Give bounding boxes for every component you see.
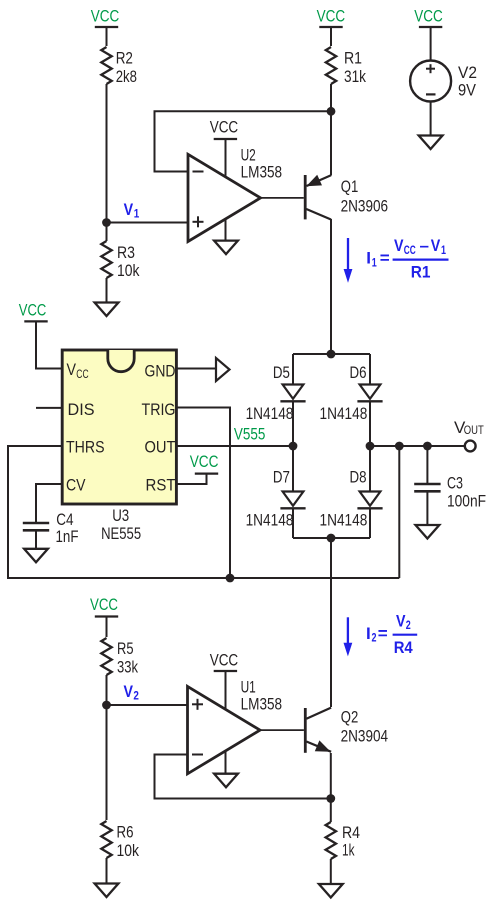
svg-text:CV: CV — [66, 476, 86, 495]
svg-text:1: 1 — [441, 243, 446, 257]
svg-text:1: 1 — [134, 206, 140, 220]
svg-text:=: = — [378, 624, 388, 643]
svg-text:V555: V555 — [234, 425, 266, 444]
svg-text:33k: 33k — [117, 658, 138, 677]
svg-text:R1: R1 — [411, 263, 431, 282]
svg-text:=: = — [380, 249, 390, 268]
svg-text:R4: R4 — [342, 823, 360, 842]
svg-text:100nF: 100nF — [447, 492, 486, 511]
svg-text:Q2: Q2 — [341, 708, 359, 727]
svg-text:2: 2 — [133, 688, 139, 702]
svg-text:2k8: 2k8 — [116, 67, 137, 86]
svg-text:CC: CC — [404, 243, 416, 257]
svg-text:10k: 10k — [117, 841, 140, 860]
svg-text:V: V — [396, 611, 406, 630]
svg-text:D6: D6 — [350, 363, 367, 382]
svg-text:R5: R5 — [117, 639, 134, 658]
svg-text:D8: D8 — [350, 468, 367, 487]
svg-text:R4: R4 — [394, 638, 413, 657]
svg-text:R1: R1 — [344, 49, 362, 68]
svg-text:C3: C3 — [447, 474, 463, 493]
svg-text:OUT: OUT — [145, 438, 176, 457]
svg-text:VCC: VCC — [317, 7, 346, 26]
svg-text:DIS: DIS — [68, 400, 95, 419]
svg-text:1N4148: 1N4148 — [320, 404, 368, 423]
svg-text:V: V — [124, 682, 134, 701]
svg-text:D7: D7 — [273, 468, 290, 487]
svg-text:GND: GND — [145, 362, 176, 381]
svg-text:VCC: VCC — [190, 452, 219, 471]
svg-text:31k: 31k — [344, 67, 366, 86]
svg-text:V2: V2 — [458, 63, 477, 82]
svg-text:VCC: VCC — [91, 7, 120, 26]
svg-text:2: 2 — [406, 618, 411, 632]
svg-text:VCC: VCC — [19, 301, 47, 320]
svg-text:2N3904: 2N3904 — [341, 727, 389, 746]
svg-text:U1: U1 — [241, 677, 256, 696]
svg-text:THRS: THRS — [66, 438, 105, 457]
svg-text:CC: CC — [76, 367, 89, 381]
svg-text:1: 1 — [372, 255, 377, 269]
svg-text:V: V — [394, 236, 404, 255]
svg-text:2N3906: 2N3906 — [341, 196, 389, 215]
svg-text:1N4148: 1N4148 — [246, 404, 294, 423]
svg-text:–: – — [420, 236, 429, 255]
svg-text:TRIG: TRIG — [142, 400, 176, 419]
svg-text:RST: RST — [146, 476, 176, 495]
svg-text:V: V — [67, 360, 77, 379]
svg-text:NE555: NE555 — [101, 524, 141, 543]
svg-text:LM358: LM358 — [241, 163, 283, 182]
svg-text:U3: U3 — [112, 506, 129, 525]
svg-text:R2: R2 — [116, 49, 133, 68]
svg-text:D5: D5 — [273, 363, 290, 382]
svg-text:R6: R6 — [117, 823, 134, 842]
svg-text:Q1: Q1 — [341, 177, 359, 196]
svg-text:10k: 10k — [117, 261, 140, 280]
svg-text:U2: U2 — [241, 145, 256, 164]
svg-text:1nF: 1nF — [56, 527, 79, 546]
svg-text:LM358: LM358 — [241, 695, 283, 714]
svg-text:1N4148: 1N4148 — [320, 511, 368, 530]
svg-text:VCC: VCC — [90, 595, 118, 614]
svg-text:9V: 9V — [458, 81, 477, 100]
svg-text:1k: 1k — [342, 841, 355, 860]
svg-text:VCC: VCC — [210, 651, 239, 670]
svg-text:V: V — [124, 200, 134, 219]
svg-text:OUT: OUT — [464, 423, 485, 437]
svg-text:1N4148: 1N4148 — [246, 511, 294, 530]
svg-text:I: I — [366, 249, 371, 268]
svg-text:VCC: VCC — [414, 7, 443, 26]
svg-text:R3: R3 — [117, 243, 135, 262]
svg-text:VCC: VCC — [210, 118, 239, 137]
svg-text:V: V — [431, 236, 441, 255]
svg-text:I: I — [366, 624, 371, 643]
svg-text:2: 2 — [372, 631, 377, 645]
